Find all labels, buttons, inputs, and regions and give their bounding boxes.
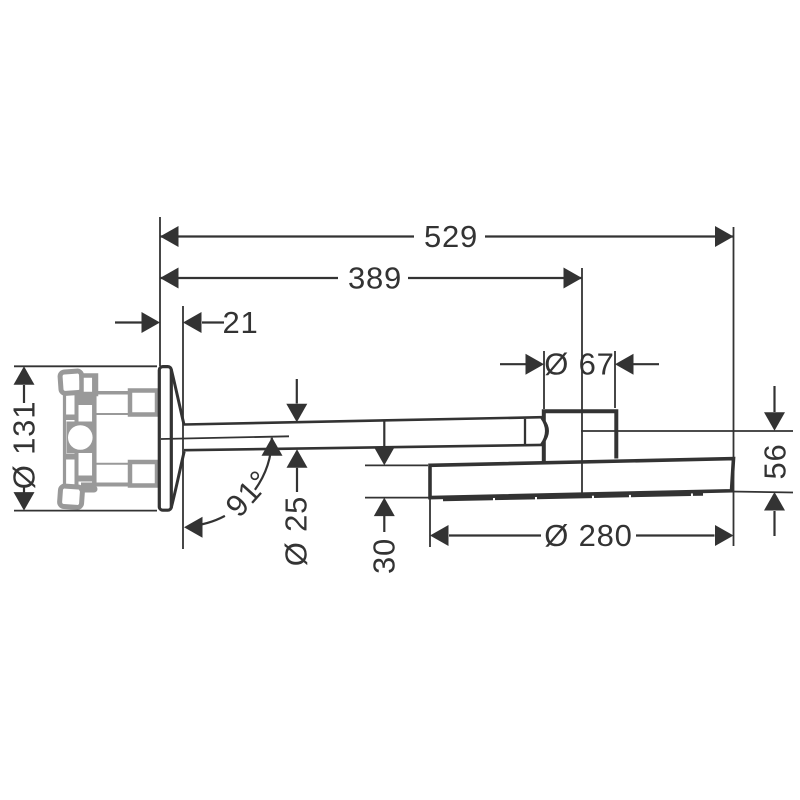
dimension 91 degrees arc [188,438,272,526]
shower head [430,459,734,498]
dimension O67 [500,363,659,365]
cone transition [171,370,184,508]
connector block [544,411,617,461]
svg-text:529: 529 [424,219,478,254]
shower arm [184,417,546,450]
dimension 389 [160,277,582,279]
extension line 30 bottom [365,497,429,499]
extension line arm start [182,306,184,549]
svg-text:Ø 131: Ø 131 [7,401,42,489]
extension line right 529 [733,227,735,546]
svg-text:21: 21 [222,305,258,340]
dimension 30 [383,420,385,532]
arm end cap [542,417,549,444]
concealed mounting bracket (gray) [59,371,157,508]
svg-text:91°: 91° [219,463,278,523]
extension line O280 left [429,466,431,547]
extension line 389 center [581,268,583,493]
extension line 30 top [365,464,428,466]
dimension 21 [115,321,224,323]
reference line 56 top [581,430,793,432]
escutcheon wall plate [159,367,171,511]
reference line 56 bottom [731,492,793,493]
extension line O131 top [14,365,157,367]
svg-text:389: 389 [348,261,402,296]
extension line O131 bottom [14,510,157,512]
extension line O67 right [614,351,616,408]
svg-text:Ø 280: Ø 280 [544,518,632,553]
arm-head joint seam [524,419,526,447]
arm centerline [161,436,289,439]
extension line wall face [159,217,161,366]
dimension 56 [773,386,775,536]
svg-text:30: 30 [367,538,402,574]
dimension O25 [296,379,298,492]
dimension O280 [449,534,715,536]
svg-text:Ø 67: Ø 67 [544,347,614,382]
dimension O131 [23,385,25,493]
svg-text:56: 56 [758,443,793,479]
dimension 529 [160,235,734,237]
svg-text:Ø 25: Ø 25 [279,496,314,566]
spray face nozzles [443,494,703,500]
extension line O67 left [543,351,545,409]
